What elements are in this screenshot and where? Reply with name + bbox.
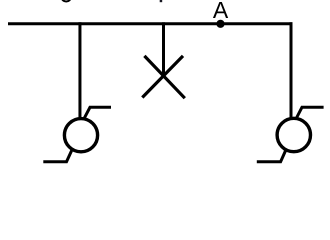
svg-text:A: A: [213, 0, 229, 23]
